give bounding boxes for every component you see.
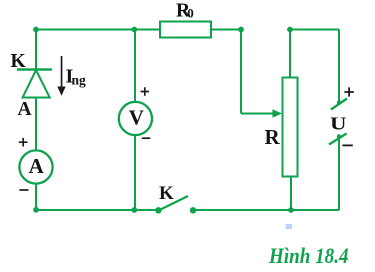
wire voltmeter branch lower <box>134 135 136 210</box>
terminal U minus tick <box>329 134 347 145</box>
terminal U upper end blob <box>337 100 341 104</box>
terminal U lower end blob <box>337 134 341 138</box>
junction dot wiper corner <box>238 27 244 33</box>
switch K right contact <box>190 207 196 213</box>
svg-text:A: A <box>18 99 32 120</box>
svg-text:K: K <box>11 51 27 72</box>
ammeter A <box>19 150 52 183</box>
resistor R0 <box>160 22 211 38</box>
U minus mark <box>342 144 352 146</box>
voltmeter minus mark <box>142 137 150 139</box>
rheostat R body <box>283 78 298 177</box>
wire U plus lead <box>338 30 340 104</box>
wire top-left horizontal <box>36 29 160 31</box>
wire top-right horizontal <box>290 29 339 31</box>
wire left vertical mid (diode anode to ammeter) <box>35 98 37 151</box>
svg-text:0: 0 <box>187 6 194 21</box>
switch K blade <box>158 196 188 211</box>
wire R0 right to corner <box>211 29 241 31</box>
ammeter plus mark <box>19 138 28 147</box>
svg-text:Hình 18.4: Hình 18.4 <box>268 243 348 268</box>
wire wiper horizontal <box>241 113 273 115</box>
wire U minus lead <box>338 136 340 210</box>
svg-text:U: U <box>330 114 347 133</box>
wire bottom-right horizontal <box>193 209 339 211</box>
svg-text:K: K <box>159 183 174 204</box>
ammeter minus mark <box>19 189 28 191</box>
junction dot voltmeter bottom <box>131 207 137 213</box>
junction dot rheostat feed <box>287 27 293 33</box>
wire wiper vertical <box>240 30 242 114</box>
label U <box>330 114 347 133</box>
diode KA triangle <box>23 70 50 98</box>
current arrow Ing <box>57 56 65 96</box>
junction dot top-left <box>33 27 39 33</box>
wire left vertical lower (ammeter to bottom) <box>35 184 37 211</box>
junction dot voltmeter top <box>131 27 137 33</box>
junction dot rheostat bottom <box>288 207 294 213</box>
switch K left contact <box>155 207 161 213</box>
svg-text:V: V <box>129 106 144 130</box>
wire left vertical upper (to diode cathode) <box>35 30 37 69</box>
wire voltmeter branch upper <box>134 30 136 103</box>
wire rheostat bottom lead <box>290 177 292 211</box>
svg-text:R: R <box>265 125 281 149</box>
diode KA cathode bar <box>17 68 52 70</box>
svg-text:ng: ng <box>72 73 87 88</box>
wire bottom-left horizontal <box>36 209 158 211</box>
wire rheostat top feed <box>289 30 291 78</box>
artifact blue square <box>286 224 293 229</box>
voltmeter plus mark <box>141 87 149 95</box>
junction dot bottom-left <box>33 207 39 213</box>
rheostat wiper arrowhead <box>273 109 283 117</box>
terminal U plus tick <box>331 99 347 110</box>
U plus mark <box>344 87 353 96</box>
voltmeter V <box>119 102 152 135</box>
svg-text:A: A <box>29 154 45 178</box>
